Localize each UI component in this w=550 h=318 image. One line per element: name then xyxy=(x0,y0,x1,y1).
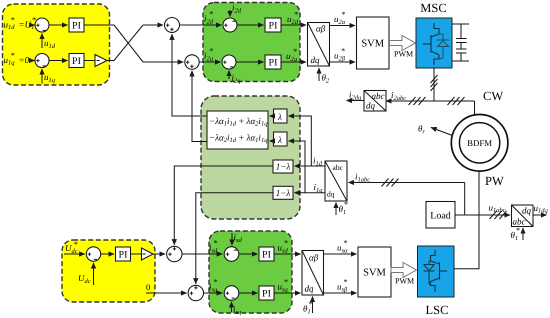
machine BDFM xyxy=(451,115,508,172)
svg-text:αβ: αβ xyxy=(309,253,319,263)
wire compensation q to S4 xyxy=(192,71,207,142)
three-phase ticks on MSC stem xyxy=(431,75,438,91)
wire isd feedback xyxy=(231,233,233,245)
wire u1d feedback xyxy=(41,34,43,49)
current control region LSC (green box 2) xyxy=(209,231,292,313)
three-phase ticks u1abc xyxy=(490,211,507,219)
wire MSC to CW bus xyxy=(433,68,435,101)
svg-text:dq: dq xyxy=(522,206,532,216)
MSC converter box xyxy=(416,18,452,68)
dc link capacitor C2 xyxy=(456,49,467,61)
SVM block 1 xyxy=(357,17,390,69)
wire u1q* to summer xyxy=(32,60,35,62)
wire cross to S3 xyxy=(143,24,163,26)
wire one-minus-lambda2 to S6 xyxy=(196,193,273,284)
wire i1q to one-minus-lambda2 xyxy=(295,192,326,194)
dc link capacitor C1 xyxy=(456,24,467,49)
wire S6 to C4 with node isq* xyxy=(204,292,223,294)
wire i2d feedback xyxy=(229,10,231,17)
wire PI5 to inverter A2 xyxy=(131,253,142,255)
gain block lambda 2 xyxy=(274,132,288,146)
svg-text:BDFM: BDFM xyxy=(467,138,492,148)
svg-text:PI: PI xyxy=(119,250,128,261)
wire one-minus-lambda1 to S5 xyxy=(174,166,273,245)
LSC freewheel diode xyxy=(424,261,435,284)
wire u1q feedback xyxy=(41,69,43,84)
summing junction S5 xyxy=(167,246,182,261)
wire i1d branch to lambda1 xyxy=(289,116,312,166)
wire AB2 to SVM2 with node usa* xyxy=(324,253,357,255)
wire S7 to PI5 xyxy=(101,253,114,255)
svg-text:PI: PI xyxy=(72,56,81,67)
summing junction C2 xyxy=(222,55,236,69)
svg-text:λ: λ xyxy=(277,112,282,122)
wire i1d to one-minus-lambda1 xyxy=(295,165,326,167)
svg-text:λ: λ xyxy=(277,135,282,145)
svg-text:PWM: PWM xyxy=(394,50,413,59)
wire AB1 to SVM1 with node u2a* xyxy=(330,25,356,27)
wire lambda1 to formula xyxy=(270,115,274,117)
wire theta1 input to AB2 xyxy=(312,297,314,314)
svg-text:dq: dq xyxy=(305,284,315,294)
wire lambda2 to formula xyxy=(270,140,274,142)
PI controller PI5 xyxy=(116,247,131,261)
summing junction C1 xyxy=(223,18,237,32)
PI controller PI7 xyxy=(259,286,274,300)
PI controller PI4 xyxy=(265,55,281,69)
svg-text:0: 0 xyxy=(146,282,150,292)
svg-text:SVM: SVM xyxy=(363,268,386,279)
SVM block 2 xyxy=(358,247,391,297)
wire PI6 to AB2 with node usd* xyxy=(274,253,301,255)
svg-text:−λα1i1d + λα2i1q: −λα1i1d + λα2i1q xyxy=(209,116,268,128)
svg-text:−λα2i1d + λα1i1q: −λα2i1d + λα1i1q xyxy=(209,133,268,145)
wire A2 to S5 xyxy=(153,253,165,255)
MSC freewheel diode xyxy=(437,34,449,59)
wire cross diagonal up xyxy=(114,25,143,61)
wire PI7 to AB2 with node usq* xyxy=(274,292,301,294)
svg-text:SVM: SVM xyxy=(361,39,384,50)
svg-text:1−λ: 1−λ xyxy=(276,162,291,172)
u1abc bus wire xyxy=(455,214,510,216)
svg-text:MSC: MSC xyxy=(420,1,446,15)
wire inverter to cross xyxy=(107,60,114,62)
summing junction S1 xyxy=(35,18,49,32)
svg-text:CW: CW xyxy=(483,89,503,103)
summing junction S2 xyxy=(35,54,49,68)
inverter gain A1 xyxy=(95,55,107,67)
svg-text:LSC: LSC xyxy=(426,303,449,317)
svg-text:1−λ: 1−λ xyxy=(276,188,291,198)
LSC IGBT symbol xyxy=(431,250,448,292)
wire C1 to PI3 xyxy=(237,24,264,26)
PW wire down xyxy=(454,171,479,269)
wire AB2 to SVM2 with node usb* xyxy=(324,292,357,294)
svg-text:PWM: PWM xyxy=(395,277,414,286)
wire theta1 input to M3 xyxy=(335,203,337,216)
three-phase ticks CW bus right xyxy=(448,97,465,105)
wire cross diagonal down xyxy=(114,25,143,62)
transform block AB1 dq to alpha-beta xyxy=(308,23,330,67)
transform block M2 abc to dq for u1 xyxy=(512,205,534,227)
gain block one-minus-lambda 2 xyxy=(273,186,293,199)
wire Udc feedback xyxy=(93,263,95,285)
transform block AB2 dq to alpha-beta xyxy=(302,251,324,296)
PW tap wire to u1abc bus xyxy=(464,183,466,216)
wire CW bus to machine xyxy=(474,101,476,116)
i1abc wire xyxy=(349,182,465,184)
summing junction S3 xyxy=(165,18,180,33)
gain block lambda 1 xyxy=(274,109,288,123)
svg-text:Udc*: Udc* xyxy=(65,240,78,255)
wire PI3 to ab1 with node u2d* xyxy=(281,24,306,26)
svg-text:dq: dq xyxy=(311,55,321,65)
wire zero to S6 xyxy=(146,292,187,294)
svg-text:PI: PI xyxy=(72,21,81,32)
gain block one-minus-lambda 1 xyxy=(273,160,293,173)
CW bus wire xyxy=(386,100,475,102)
svg-text:PI: PI xyxy=(269,21,278,32)
svg-text:dq: dq xyxy=(366,101,376,111)
voltage control region (yellow box 1) xyxy=(3,4,110,85)
svg-text:PI: PI xyxy=(262,250,271,261)
summing junction S6 xyxy=(188,285,203,300)
summing junction S7 xyxy=(86,247,100,261)
wire S4 to C2 with node i2q* xyxy=(199,61,220,63)
compensation region (light green box) xyxy=(201,96,300,219)
svg-text:dq: dq xyxy=(327,190,335,199)
dc voltage control region (yellow box 2) xyxy=(62,240,155,302)
transform block M3 abc to dq for i1 xyxy=(325,161,347,201)
wire i2q feedback xyxy=(228,71,230,80)
wire S2 to PI2 xyxy=(49,60,68,62)
wire PI2 to inverter xyxy=(84,60,95,62)
three-phase ticks i1abc xyxy=(382,179,399,187)
wire S3 to C1 with node i2d* xyxy=(180,24,222,26)
wire rotor angle output xyxy=(431,128,453,136)
current control region CW (green box 1) xyxy=(203,3,300,82)
wire C4 to PI7 xyxy=(239,292,258,294)
wire PI1 output xyxy=(84,24,114,26)
summing junction C3 xyxy=(224,247,239,262)
three-phase ticks CW bus left xyxy=(409,97,426,105)
Load block xyxy=(426,202,455,229)
PWM hollow arrow 2 xyxy=(391,263,417,278)
wire Udc* to S7 xyxy=(64,253,85,255)
formula block compensation xyxy=(207,111,268,149)
dc link wire top xyxy=(452,23,469,25)
wire AB1 to SVM1 with node u2b* xyxy=(330,61,356,63)
wire S1 to PI1 xyxy=(49,24,68,26)
PWM hollow arrow 1 xyxy=(390,36,416,51)
svg-text:PI: PI xyxy=(269,58,278,69)
wire C2 to PI4 xyxy=(236,61,264,63)
transform block M1 abc to dq for i2 xyxy=(364,91,386,112)
wire i1q branch to lambda2 xyxy=(289,141,306,193)
PI controller PI3 xyxy=(265,18,281,32)
wire i2dq output xyxy=(347,100,365,102)
wire PI4 to ab1 with node u2q* xyxy=(281,61,306,63)
svg-text:Load: Load xyxy=(430,211,451,222)
LSC converter box xyxy=(418,246,455,297)
svg-text:PW: PW xyxy=(485,174,504,188)
inverter gain A2 xyxy=(142,248,154,260)
wire compensation d to S3 xyxy=(172,34,207,116)
wire u1d* to summer xyxy=(32,24,35,26)
svg-text:abc: abc xyxy=(333,163,344,172)
wire S5 to C3 with node isd* xyxy=(182,253,222,255)
PI controller PI1 xyxy=(69,18,84,32)
svg-text:αβ: αβ xyxy=(316,24,326,34)
wire u1dq output xyxy=(533,214,547,216)
summing junction S4 xyxy=(185,55,199,69)
wire C3 to PI6 xyxy=(239,253,258,255)
wire theta2 input xyxy=(318,68,320,81)
svg-text:abc: abc xyxy=(372,91,385,101)
MSC IGBT symbol xyxy=(423,23,439,65)
wire isq feedback xyxy=(231,302,233,312)
wire theta1 input to M2 xyxy=(522,228,524,240)
dc link wire bottom xyxy=(452,60,469,62)
summing junction C4 xyxy=(224,286,239,301)
wire cross to S4 xyxy=(143,61,183,63)
svg-text:PI: PI xyxy=(262,289,271,300)
PI controller PI6 xyxy=(259,247,274,261)
PI controller PI2 xyxy=(69,54,84,68)
